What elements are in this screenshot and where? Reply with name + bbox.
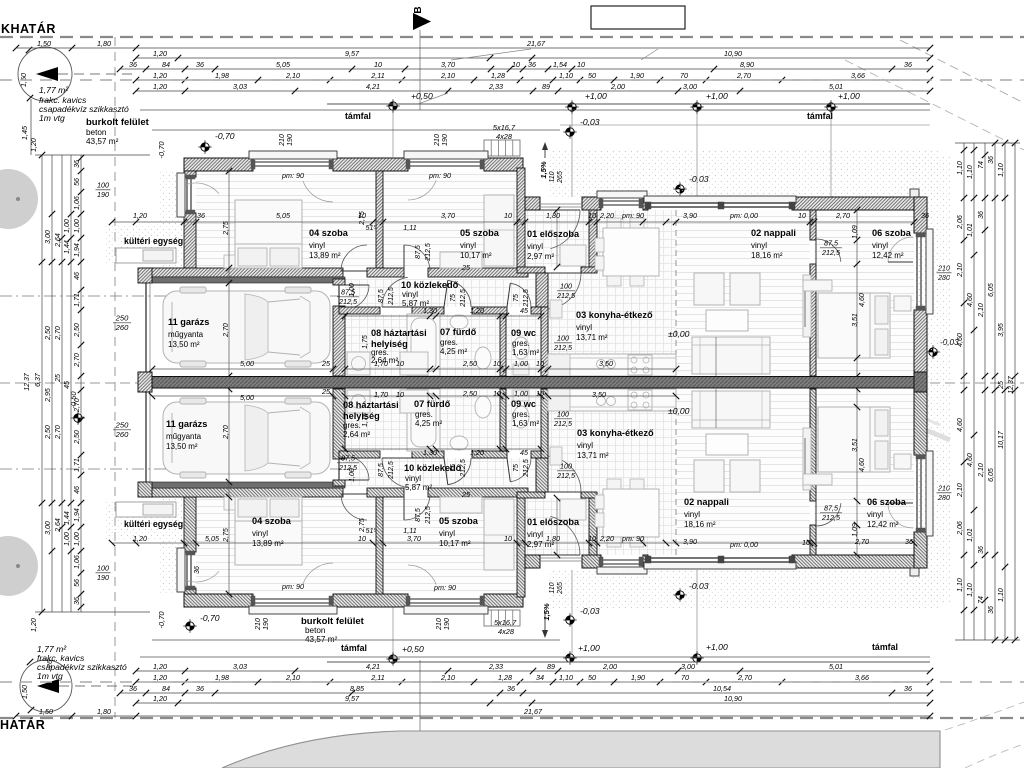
svg-text:vinyl: vinyl [872, 241, 888, 250]
strip chain line y316 [345, 315, 541, 317]
svg-text:10: 10 [588, 211, 596, 220]
eloszoba bottom wall [517, 267, 545, 273]
svg-text:36: 36 [988, 156, 995, 164]
svg-text:07 fürdő: 07 fürdő [414, 399, 451, 409]
svg-text:10,17: 10,17 [998, 430, 1005, 449]
svg-text:34: 34 [536, 673, 544, 682]
svg-text:36: 36 [196, 684, 204, 693]
sink [597, 360, 606, 369]
svg-text:08 háztartási: 08 háztartási [371, 328, 427, 338]
svg-text:HATÁR: HATÁR [0, 717, 45, 732]
svg-text:46: 46 [74, 272, 81, 280]
dimension row D bottom [136, 681, 930, 683]
svg-text:+1,00: +1,00 [585, 91, 607, 101]
toilet furdo [475, 347, 491, 369]
svg-text:74: 74 [978, 161, 985, 169]
top wall left section [184, 158, 253, 171]
title block rectangle top [591, 6, 685, 29]
svg-text:190: 190 [287, 134, 294, 146]
svg-text:3,51: 3,51 [852, 438, 859, 452]
floor wc [506, 314, 541, 376]
svg-text:212,5: 212,5 [523, 289, 530, 308]
svg-text:10: 10 [536, 389, 544, 398]
kitchen window top [597, 191, 647, 198]
svg-text:1,20: 1,20 [133, 534, 147, 543]
stairs bottom [484, 610, 520, 626]
svg-text:1,10: 1,10 [967, 583, 974, 597]
garage door leaf [145, 283, 147, 374]
svg-text:pm: 90: pm: 90 [281, 171, 304, 180]
center axis dashes right [930, 382, 1024, 384]
svg-text:pm: 90: pm: 90 [428, 171, 451, 180]
diagonal dashed corner top right [900, 40, 1024, 103]
svg-text:36: 36 [988, 606, 995, 614]
svg-text:1,09: 1,09 [852, 225, 859, 239]
svg-text:±0,00: ±0,00 [668, 406, 690, 416]
svg-text:1,20: 1,20 [470, 306, 484, 315]
svg-text:1,71: 1,71 [74, 293, 81, 307]
svg-text:műgyanta: műgyanta [168, 330, 204, 339]
svg-text:212,5: 212,5 [553, 343, 573, 352]
svg-text:2,75: 2,75 [223, 221, 230, 236]
setback dashed line vertical left [114, 37, 116, 718]
svg-text:51⁵: 51⁵ [365, 526, 376, 535]
garage driveway axis bottom [0, 468, 340, 470]
svg-text:3,00: 3,00 [683, 82, 697, 91]
section line B vertical bottom [419, 660, 421, 740]
svg-text:210: 210 [436, 618, 443, 631]
svg-text:1,70: 1,70 [374, 359, 388, 368]
mirrored bottom unit [109, 375, 933, 614]
svg-text:5,00: 5,00 [240, 393, 254, 402]
floor furdo [436, 314, 500, 376]
svg-text:3,70: 3,70 [441, 60, 455, 69]
bench room05 [440, 252, 482, 268]
kitchen counter [548, 354, 676, 376]
svg-text:36: 36 [978, 546, 985, 554]
svg-text:2,70: 2,70 [736, 71, 751, 80]
corridor end wall / wc right wall [536, 273, 548, 307]
svg-text:2,00: 2,00 [602, 662, 617, 671]
svg-text:2,75: 2,75 [359, 518, 366, 533]
window 04 top [249, 151, 337, 159]
dimension row C bottom [120, 692, 930, 694]
stairs top [484, 140, 520, 156]
svg-text:1,00: 1,00 [64, 219, 71, 233]
svg-text:vinyl: vinyl [252, 529, 268, 538]
svg-text:43,57 m²: 43,57 m² [86, 137, 119, 146]
svg-text:2,70: 2,70 [55, 326, 62, 341]
svg-text:-0,03: -0,03 [580, 117, 600, 127]
svg-text:9,57: 9,57 [345, 49, 360, 58]
svg-text:212,5: 212,5 [553, 419, 573, 428]
tv cabinet nappali [803, 275, 811, 337]
svg-text:50: 50 [588, 673, 596, 682]
svg-text:10: 10 [493, 389, 501, 398]
svg-text:10,17 m²: 10,17 m² [460, 251, 492, 260]
svg-text:2,10: 2,10 [957, 263, 964, 278]
svg-text:támfal: támfal [341, 643, 367, 653]
svg-text:vinyl: vinyl [867, 510, 883, 519]
kitchen chain y369 [548, 368, 676, 370]
partition 08|07 [430, 314, 436, 376]
door 05 [404, 245, 430, 271]
svg-text:4,60: 4,60 [967, 453, 974, 467]
svg-text:5,05: 5,05 [276, 211, 291, 220]
svg-text:1,90: 1,90 [631, 673, 645, 682]
svg-text:1,45: 1,45 [20, 125, 29, 140]
svg-text:1,20: 1,20 [153, 49, 167, 58]
property boundary dashed line top [0, 36, 1024, 38]
soakaway circle bottom left [20, 660, 72, 712]
svg-text:190: 190 [263, 618, 270, 630]
svg-text:84: 84 [162, 60, 170, 69]
svg-text:vinyl: vinyl [751, 241, 767, 250]
svg-text:gres.: gres. [512, 339, 530, 348]
svg-text:±0,00: ±0,00 [668, 329, 690, 339]
svg-text:08 háztartási: 08 háztartási [343, 400, 399, 410]
svg-text:13,50 m²: 13,50 m² [168, 340, 200, 349]
paved patch kulteri top [105, 224, 160, 264]
svg-text:1,11: 1,11 [403, 526, 416, 535]
svg-text:beton: beton [305, 626, 326, 635]
svg-text:2,70: 2,70 [737, 673, 752, 682]
svg-text:36: 36 [74, 597, 81, 605]
svg-text:212,5: 212,5 [338, 297, 358, 306]
parcel dashed overlay row D [0, 79, 1024, 81]
svg-text:gres.: gres. [512, 410, 530, 419]
paved area right side of building [900, 155, 950, 603]
svg-text:5x16,7: 5x16,7 [493, 123, 516, 132]
svg-text:1,10: 1,10 [967, 165, 974, 179]
dimension row B bottom [136, 702, 930, 704]
svg-text:1,11: 1,11 [403, 223, 416, 232]
svg-text:3,66: 3,66 [851, 71, 865, 80]
svg-text:25: 25 [461, 263, 471, 272]
svg-text:3,00: 3,00 [45, 230, 52, 244]
svg-text:190: 190 [444, 618, 451, 630]
right section top wall [525, 197, 540, 210]
closet eloszoba [560, 245, 586, 266]
svg-text:36: 36 [197, 211, 205, 220]
svg-text:9,57: 9,57 [345, 694, 360, 703]
dimension row C top [120, 68, 930, 70]
svg-text:10: 10 [396, 359, 404, 368]
dimension row B top (1,20 9,57 10,90) [136, 57, 930, 59]
svg-text:36: 36 [129, 684, 137, 693]
svg-text:2,11: 2,11 [370, 673, 384, 682]
svg-text:43,57 m²: 43,57 m² [305, 635, 338, 644]
svg-text:3,95: 3,95 [998, 323, 1005, 337]
svg-text:75: 75 [450, 294, 457, 302]
svg-text:1,50: 1,50 [20, 685, 29, 699]
partition nappali|06 [810, 210, 816, 240]
svg-text:vinyl: vinyl [527, 242, 543, 251]
contour curves bottom right [945, 702, 1024, 730]
garage slab dark edge [141, 277, 345, 283]
svg-text:36: 36 [194, 566, 201, 574]
bath strip top wall [339, 307, 380, 314]
svg-text:10,90: 10,90 [724, 49, 742, 58]
svg-text:100: 100 [560, 282, 572, 291]
svg-text:5,05: 5,05 [205, 534, 220, 543]
svg-text:vinyl: vinyl [576, 323, 592, 332]
svg-text:5,05: 5,05 [276, 60, 291, 69]
svg-text:2,00: 2,00 [610, 82, 625, 91]
svg-text:21,67: 21,67 [526, 39, 546, 48]
svg-text:84: 84 [162, 684, 170, 693]
svg-text:250: 250 [115, 421, 129, 430]
svg-text:2,50: 2,50 [462, 359, 477, 368]
svg-text:1,50: 1,50 [37, 39, 51, 48]
svg-text:56: 56 [74, 579, 81, 587]
floor corridor [345, 279, 536, 307]
gray tree blob left bottom [0, 536, 38, 596]
svg-text:2,11: 2,11 [370, 71, 384, 80]
svg-text:1,01: 1,01 [967, 223, 974, 237]
bed room04 [235, 200, 302, 268]
armchairs nappali [694, 273, 724, 305]
floor bedroom 05 [383, 171, 517, 268]
svg-text:1,20: 1,20 [133, 211, 147, 220]
svg-text:1,71: 1,71 [74, 458, 81, 472]
svg-text:4,21: 4,21 [366, 662, 380, 671]
svg-text:3,00: 3,00 [45, 521, 52, 535]
svg-text:1,44: 1,44 [64, 240, 71, 254]
svg-text:támfal: támfal [872, 642, 898, 652]
paved strip left of bedroom bottom [158, 497, 184, 594]
svg-text:pm: 90: pm: 90 [281, 582, 304, 591]
retaining wall lines bottom [327, 661, 930, 663]
svg-text:2,50: 2,50 [462, 389, 477, 398]
svg-text:kültéri egység: kültéri egység [124, 236, 183, 246]
svg-text:11 garázs: 11 garázs [168, 317, 209, 327]
svg-text:vinyl: vinyl [402, 290, 418, 299]
svg-text:+1,00: +1,00 [838, 91, 860, 101]
svg-text:07 fürdő: 07 fürdő [440, 327, 477, 337]
svg-text:4,60: 4,60 [967, 293, 974, 307]
svg-text:1,75: 1,75 [362, 413, 369, 427]
svg-text:5,01: 5,01 [829, 662, 843, 671]
svg-text:05 szoba: 05 szoba [460, 228, 500, 238]
svg-text:2,64: 2,64 [55, 233, 62, 248]
svg-text:1,00: 1,00 [74, 532, 81, 546]
svg-text:87,5: 87,5 [341, 454, 356, 463]
svg-text:10: 10 [798, 211, 806, 220]
svg-text:2,70: 2,70 [854, 537, 869, 546]
svg-text:12,42 m²: 12,42 m² [872, 251, 904, 260]
svg-text:2,70: 2,70 [74, 398, 81, 413]
svg-text:1m vtg: 1m vtg [39, 113, 65, 123]
svg-text:1,80: 1,80 [546, 534, 560, 543]
corner post top right [910, 189, 919, 197]
svg-text:2,75: 2,75 [359, 211, 366, 226]
svg-text:06 szoba: 06 szoba [867, 497, 907, 507]
svg-text:5x16,7: 5x16,7 [494, 618, 517, 627]
window 05 top [404, 151, 488, 159]
slope arrow top [544, 145, 546, 158]
svg-text:01 előszoba: 01 előszoba [527, 229, 580, 239]
svg-text:18,16 m²: 18,16 m² [751, 251, 783, 260]
svg-text:pm: 0,00: pm: 0,00 [729, 540, 758, 549]
svg-text:10: 10 [802, 538, 810, 547]
svg-text:25: 25 [321, 387, 331, 396]
svg-text:2,64: 2,64 [55, 518, 62, 533]
svg-text:36: 36 [129, 60, 137, 69]
svg-text:212,5: 212,5 [556, 291, 576, 300]
svg-text:1,06: 1,06 [74, 196, 81, 210]
eloszoba vert chain [556, 210, 558, 267]
svg-text:2,50: 2,50 [45, 425, 52, 440]
svg-text:vinyl: vinyl [684, 510, 700, 519]
svg-text:10: 10 [396, 390, 404, 399]
svg-text:04 szoba: 04 szoba [252, 516, 292, 526]
garage left door blocks [138, 268, 152, 283]
svg-text:6,37: 6,37 [35, 372, 42, 387]
svg-text:3,50: 3,50 [599, 359, 613, 368]
car garage [163, 287, 330, 367]
floor haztartasi [345, 314, 430, 376]
svg-text:75: 75 [513, 464, 520, 472]
paved area above right section [548, 150, 940, 198]
svg-text:1,94: 1,94 [74, 243, 81, 257]
svg-text:13,71 m²: 13,71 m² [577, 451, 609, 460]
svg-text:2,06: 2,06 [957, 215, 964, 230]
svg-text:36: 36 [904, 684, 912, 693]
gray tree blob left top [0, 169, 38, 229]
svg-text:-0,70: -0,70 [200, 613, 220, 623]
svg-text:2,97 m²: 2,97 m² [527, 252, 554, 261]
svg-text:1,28: 1,28 [491, 71, 505, 80]
svg-text:09 wc: 09 wc [511, 399, 536, 409]
toilet wc [513, 337, 529, 359]
svg-text:87,5: 87,5 [378, 463, 385, 477]
svg-text:1,54: 1,54 [553, 60, 567, 69]
svg-text:-0,70: -0,70 [215, 131, 235, 141]
svg-text:25: 25 [321, 359, 331, 368]
svg-text:3,90: 3,90 [683, 537, 697, 546]
bed szoba06 [818, 293, 890, 358]
room width chain line [112, 221, 914, 223]
garage driveway axis top [0, 295, 340, 297]
svg-text:12,42 m²: 12,42 m² [867, 520, 899, 529]
svg-text:10 közlekedő: 10 közlekedő [401, 280, 459, 290]
svg-text:1,10: 1,10 [957, 578, 964, 592]
svg-text:vinyl: vinyl [527, 530, 543, 539]
svg-text:1,10: 1,10 [559, 673, 573, 682]
kitchen|nappali dashed divider [675, 210, 677, 376]
svg-text:gres.: gres. [415, 410, 433, 419]
svg-text:100: 100 [97, 181, 109, 190]
dimension row A top (1,50 1,80 21,67) [16, 47, 930, 49]
svg-text:25: 25 [55, 374, 62, 383]
section line B vertical top [419, 30, 421, 110]
svg-text:+1,00: +1,00 [706, 91, 728, 101]
diagonal leaders top [451, 49, 531, 60]
svg-text:1,20: 1,20 [153, 673, 167, 682]
svg-text:190: 190 [97, 573, 109, 582]
svg-text:10: 10 [504, 534, 512, 543]
svg-text:1,20: 1,20 [470, 448, 484, 457]
svg-text:01 előszoba: 01 előszoba [527, 517, 580, 527]
svg-text:B: B [413, 6, 424, 13]
svg-text:2,75: 2,75 [223, 528, 230, 543]
svg-text:4x28: 4x28 [496, 132, 513, 141]
svg-text:1,63 m²: 1,63 m² [512, 348, 539, 357]
svg-text:1,50: 1,50 [39, 707, 53, 716]
washbasin furdo [450, 315, 468, 329]
svg-text:2,10: 2,10 [978, 463, 985, 478]
svg-text:1,90: 1,90 [630, 71, 644, 80]
vertical chain x857 [856, 210, 858, 376]
strip chain line y369 [345, 368, 541, 370]
svg-text:műgyanta: műgyanta [166, 432, 202, 441]
svg-text:36: 36 [905, 537, 913, 546]
svg-text:5,00: 5,00 [240, 359, 254, 368]
svg-text:212,5: 212,5 [821, 513, 841, 522]
svg-text:75: 75 [450, 464, 457, 472]
svg-text:2,20: 2,20 [599, 211, 614, 220]
svg-text:89: 89 [547, 662, 555, 671]
svg-text:2,10: 2,10 [978, 303, 985, 318]
svg-text:56: 56 [74, 178, 81, 186]
partition 04|05 [376, 171, 383, 268]
window 04 left wall [177, 173, 185, 217]
svg-text:támfal: támfal [345, 111, 371, 121]
floor nappali [676, 210, 810, 376]
svg-text:beton: beton [86, 128, 107, 137]
svg-text:vinyl: vinyl [577, 441, 593, 450]
svg-text:212,5: 212,5 [425, 243, 432, 262]
svg-text:1,44: 1,44 [64, 511, 71, 525]
svg-text:8,90: 8,90 [740, 60, 754, 69]
svg-text:12,37: 12,37 [24, 372, 31, 391]
svg-text:06 szoba: 06 szoba [872, 228, 912, 238]
svg-text:18,16 m²: 18,16 m² [684, 520, 716, 529]
svg-text:1,00: 1,00 [514, 389, 528, 398]
partition 07|09 [500, 314, 506, 376]
svg-text:1,20: 1,20 [153, 71, 167, 80]
wall 05|01 vertical [517, 168, 525, 273]
svg-text:2,70: 2,70 [223, 323, 230, 338]
svg-text:2,70: 2,70 [55, 425, 62, 440]
svg-text:3,90: 3,90 [683, 211, 697, 220]
svg-text:04 szoba: 04 szoba [309, 228, 349, 238]
svg-text:3,51: 3,51 [852, 313, 859, 327]
nightstand szoba06 [803, 280, 832, 291]
svg-text:8,85: 8,85 [350, 684, 365, 693]
svg-text:4,25 m²: 4,25 m² [440, 347, 467, 356]
svg-text:100: 100 [557, 410, 569, 419]
washer haztartasi [347, 352, 370, 375]
left dimension chains [41, 155, 43, 612]
svg-text:10: 10 [374, 60, 382, 69]
window szoba06 right [926, 229, 933, 314]
svg-text:pm: 0,00: pm: 0,00 [729, 211, 758, 220]
svg-text:1,10: 1,10 [559, 71, 573, 80]
kulteri egyseg pad [116, 248, 176, 263]
svg-text:1,80: 1,80 [546, 211, 560, 220]
dimension row D top [136, 79, 930, 81]
svg-text:1,10: 1,10 [998, 163, 1005, 177]
svg-text:6,05: 6,05 [988, 283, 995, 297]
retaining wall lines top [327, 103, 930, 105]
svg-text:87,5: 87,5 [415, 508, 422, 522]
party wall dark band [152, 377, 914, 389]
svg-text:3,00: 3,00 [681, 662, 695, 671]
svg-text:1,5%: 1,5% [539, 161, 548, 179]
right exterior wall [914, 197, 927, 233]
